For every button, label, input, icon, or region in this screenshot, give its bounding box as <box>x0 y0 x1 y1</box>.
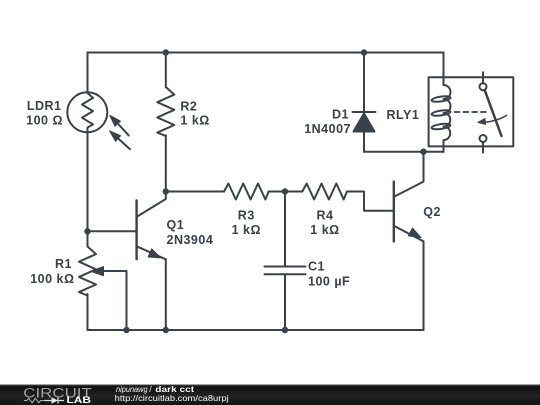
svg-text:Q2: Q2 <box>423 205 441 219</box>
wire LDR top lead <box>87 53 89 94</box>
logo squiggle resistor <box>24 398 45 402</box>
svg-text:1 kΩ: 1 kΩ <box>310 223 339 237</box>
svg-text:http://circuitlab.com/ca8urpj: http://circuitlab.com/ca8urpj <box>115 393 229 403</box>
svg-text:R4: R4 <box>317 209 334 223</box>
node dot wiper bottom <box>123 327 129 333</box>
relay switch <box>482 72 484 83</box>
node dot top D1 <box>361 49 367 55</box>
wire Q2 emitter down <box>423 241 425 330</box>
photoresistor LDR1 <box>67 92 107 132</box>
svg-text:1 kΩ: 1 kΩ <box>232 223 261 237</box>
node dot relay bottom <box>420 149 426 155</box>
logo squiggle diode <box>45 397 65 403</box>
wire Q1 emitter down <box>165 259 167 330</box>
resistor R4 <box>302 184 347 200</box>
relay coil <box>443 53 445 86</box>
svg-text:100 Ω: 100 Ω <box>26 114 63 128</box>
diode D1 <box>363 53 365 113</box>
capacitor C1 leads <box>284 192 286 331</box>
svg-text:C1: C1 <box>308 260 325 274</box>
svg-text:R3: R3 <box>238 209 255 223</box>
wire bottom rail <box>88 329 424 331</box>
wire top rail <box>88 52 444 54</box>
resistor R3 <box>224 184 269 200</box>
svg-text:LAB: LAB <box>67 395 92 405</box>
node dot Q1 emitter bottom <box>163 327 169 333</box>
potentiometer R1 <box>87 231 89 246</box>
resistor R2 leads <box>165 53 167 192</box>
wire R4 to Q2 base <box>347 192 394 211</box>
svg-text:R1: R1 <box>55 257 72 271</box>
svg-text:2N3904: 2N3904 <box>167 233 214 247</box>
node dot top R2 <box>163 49 169 55</box>
transistor Q1 <box>88 230 137 232</box>
transistor Q2 <box>393 182 395 242</box>
relay RLY1 box <box>429 77 514 146</box>
svg-text:100 µF: 100 µF <box>308 274 350 288</box>
svg-text:1 kΩ: 1 kΩ <box>180 114 209 128</box>
capacitor C1 <box>265 267 306 275</box>
node dot R1 top <box>84 228 90 234</box>
wire R3 left <box>166 191 224 193</box>
resistor R2 <box>157 87 174 136</box>
svg-text:RLY1: RLY1 <box>387 108 420 122</box>
svg-text:100 kΩ: 100 kΩ <box>30 272 74 286</box>
node dot C1 bottom <box>282 327 288 333</box>
svg-text:1N4007: 1N4007 <box>304 122 351 136</box>
svg-text:D1: D1 <box>332 108 349 122</box>
svg-text:Q1: Q1 <box>167 218 185 232</box>
wire R3-R4 <box>269 191 303 193</box>
wire D1 to relay coil <box>364 151 444 153</box>
node dot Q1 collector <box>163 188 169 194</box>
wire LDR bottom lead <box>87 132 89 231</box>
svg-text:LDR1: LDR1 <box>27 99 62 113</box>
svg-text:R2: R2 <box>180 99 197 113</box>
node dot R3 R4 C1 <box>282 188 288 194</box>
